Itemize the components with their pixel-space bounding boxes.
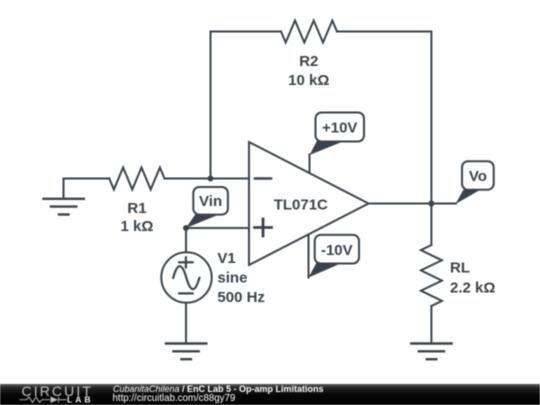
svg-text:+10V: +10V bbox=[322, 120, 357, 137]
label RL 2.2 kΩ bbox=[450, 260, 495, 297]
op-amp U1 TL071C bbox=[249, 142, 369, 265]
svg-text:RL: RL bbox=[450, 260, 470, 277]
svg-text:TL071C: TL071C bbox=[274, 197, 328, 214]
wire: V1 bottom to ground bbox=[185, 303, 187, 344]
wire: feedback left vertical + top segment to R2 bbox=[211, 32, 282, 179]
svg-text:V1: V1 bbox=[217, 250, 235, 267]
label R1 1 kΩ bbox=[121, 200, 154, 235]
wire: Vin node to op-amp non-inverting input bbox=[186, 227, 249, 229]
node junction at inverting input bbox=[208, 176, 214, 182]
svg-text:R2: R2 bbox=[299, 53, 318, 70]
svg-text:sine: sine bbox=[217, 270, 247, 287]
CircuitLab logo bbox=[20, 383, 94, 405]
voltage source V1 bbox=[161, 252, 211, 302]
node label Vo flag bbox=[456, 161, 494, 204]
node label Vin flag bbox=[186, 187, 228, 228]
+10V supply flag bbox=[310, 113, 365, 156]
svg-text:2.2 kΩ: 2.2 kΩ bbox=[450, 280, 495, 297]
footer title text bbox=[113, 384, 324, 404]
svg-text:-10V: -10V bbox=[321, 242, 353, 259]
wire: left ground to R1 bbox=[64, 178, 110, 180]
resistor R2 bbox=[281, 21, 337, 43]
label V1 sine 500 Hz bbox=[217, 250, 265, 306]
+10V supply stub bbox=[309, 155, 311, 173]
svg-text:500 Hz: 500 Hz bbox=[217, 289, 265, 306]
-10V supply stub bbox=[308, 235, 310, 278]
ground (below RL) bbox=[411, 344, 451, 360]
ground (below V1) bbox=[166, 344, 206, 360]
wire: output node down to RL bbox=[430, 204, 432, 246]
wire: R1 to op-amp inverting input bbox=[165, 178, 250, 180]
wire: RL bottom to ground bbox=[430, 306, 432, 344]
svg-text:http://circuitlab.com/c88gy79: http://circuitlab.com/c88gy79 bbox=[113, 393, 236, 404]
wire: op-amp output to Vo bbox=[369, 203, 457, 205]
svg-text:Vin: Vin bbox=[199, 193, 222, 210]
label TL071C bbox=[274, 197, 328, 214]
footer bar bbox=[0, 384, 540, 405]
svg-text:R1: R1 bbox=[127, 200, 146, 217]
svg-text:1 kΩ: 1 kΩ bbox=[121, 218, 154, 235]
svg-text:10 kΩ: 10 kΩ bbox=[288, 72, 329, 89]
svg-text:Vo: Vo bbox=[469, 168, 487, 185]
wire: R2 right to output node vertical bbox=[337, 32, 431, 204]
resistor R1 bbox=[109, 168, 164, 190]
svg-text:LAB: LAB bbox=[67, 395, 93, 405]
node junction at output bbox=[428, 201, 434, 207]
label R2 10 kΩ bbox=[288, 53, 329, 89]
resistor RL bbox=[421, 245, 442, 306]
ground (left, input) bbox=[44, 179, 84, 215]
wire: Vin node to V1 top bbox=[185, 228, 187, 252]
node Vin junction dot bbox=[183, 225, 189, 231]
-10V supply flag bbox=[309, 235, 360, 278]
